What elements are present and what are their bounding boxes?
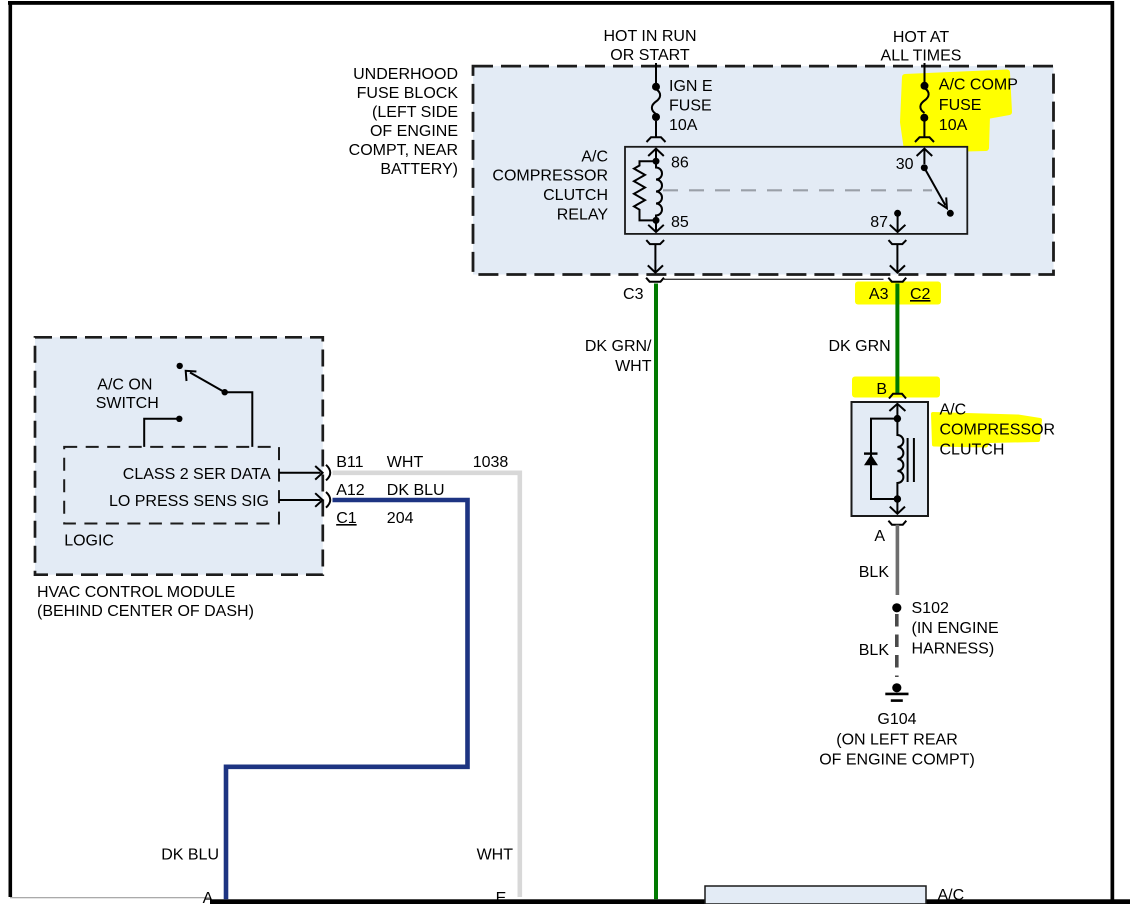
relay switch end dot [947, 210, 954, 217]
svg-text:BLK: BLK [859, 564, 890, 581]
svg-text:10A: 10A [939, 117, 968, 134]
svg-text:HOT AT: HOT AT [893, 29, 950, 46]
frame bottom grey line [10, 897, 210, 898]
relay pin 30 dot [921, 164, 928, 171]
logic box [64, 447, 279, 524]
fuse A/C COMP top dot [921, 82, 929, 90]
wire fuse to connector [655, 121, 657, 137]
wire DK BLU [226, 500, 468, 899]
svg-text:A/C COMP: A/C COMP [939, 77, 1018, 94]
A/C on switch mid dot [222, 389, 228, 395]
clutch top dot [894, 415, 901, 422]
svg-text:HOT IN RUN: HOT IN RUN [603, 28, 696, 45]
connector cup below box A3-C2 [888, 278, 906, 282]
connector tent above relay (IGN E) [647, 137, 666, 142]
frame left bar [9, 1, 13, 897]
svg-text:E: E [496, 890, 507, 904]
wire BLK dashed [895, 614, 899, 677]
wire hot in run feed [655, 63, 657, 86]
svg-text:HARNESS): HARNESS) [912, 640, 995, 657]
svg-text:204: 204 [387, 510, 414, 527]
wire switch to logic left [144, 419, 179, 447]
diode triangle [864, 455, 878, 466]
fuse A/C COMP element [920, 88, 928, 113]
svg-text:S102: S102 [912, 600, 949, 617]
lo press sens sig out arrow [279, 499, 321, 501]
fuse IGN E bottom dot [652, 113, 660, 121]
wire hot at all times feed [924, 63, 926, 85]
clutch exit arrow [896, 499, 898, 514]
svg-text:FUSE: FUSE [669, 98, 712, 115]
clutch plates [907, 438, 909, 482]
svg-text:WHT: WHT [387, 454, 424, 471]
wire WHT [333, 473, 520, 897]
connector cup below relay C3 [646, 240, 664, 244]
svg-text:A/C: A/C [581, 149, 608, 166]
connector cup below relay 87 [889, 240, 907, 244]
connector cup below clutch A [888, 521, 906, 525]
svg-text:C1: C1 [336, 510, 357, 527]
wire switch to logic right [225, 392, 253, 447]
svg-text:85: 85 [671, 214, 689, 231]
svg-text:IGN E: IGN E [669, 78, 713, 95]
highlight COMPRESSOR [933, 414, 1040, 446]
ground G104 [892, 683, 901, 692]
svg-text:OF ENGINE COMPT): OF ENGINE COMPT) [819, 752, 975, 769]
highlight A3 C2 [855, 282, 941, 305]
svg-text:OF ENGINE: OF ENGINE [370, 123, 458, 140]
wire BLK solid [896, 525, 900, 595]
svg-text:10A: 10A [669, 117, 698, 134]
svg-text:COMPRESSOR: COMPRESSOR [940, 422, 1056, 439]
arrow C3 exit [648, 265, 663, 272]
highlight B [852, 377, 940, 398]
relay switch arm [924, 168, 945, 206]
wire C3 exit [654, 244, 656, 272]
svg-text:A: A [874, 528, 885, 545]
wire fuse to connector (right) [923, 121, 925, 137]
svg-text:A12: A12 [336, 482, 365, 499]
class 2 ser data out arrow [279, 472, 321, 474]
svg-text:A/C: A/C [940, 402, 967, 419]
svg-text:COMPT, NEAR: COMPT, NEAR [349, 142, 458, 159]
connector paren B11 [326, 465, 330, 481]
highlight A/C COMP FUSE [903, 73, 1009, 151]
relay pin 30 entry arrow [917, 149, 933, 156]
svg-text:(IN ENGINE: (IN ENGINE [912, 620, 999, 637]
svg-text:B: B [876, 381, 887, 398]
relay pin 85 dot [653, 217, 660, 224]
fuse A/C COMP bottom dot [920, 114, 928, 122]
frame top bar [8, 1, 1114, 5]
diode bar [864, 452, 878, 454]
svg-text:OR START: OR START [610, 47, 690, 64]
svg-text:CLUTCH: CLUTCH [543, 187, 608, 204]
relay pin 86 entry arrow [648, 149, 664, 156]
svg-text:CLUTCH: CLUTCH [940, 442, 1005, 459]
svg-text:(ON LEFT REAR: (ON LEFT REAR [836, 731, 958, 748]
svg-text:G104: G104 [877, 711, 916, 728]
relay coil [656, 161, 662, 220]
svg-text:C3: C3 [623, 286, 644, 303]
clutch entry arrow [889, 404, 905, 411]
svg-text:1038: 1038 [473, 454, 509, 471]
arrow 87 exit [890, 265, 905, 272]
underhood fuse block box [473, 66, 1054, 274]
svg-text:A3: A3 [869, 286, 889, 303]
svg-text:LOGIC: LOGIC [64, 533, 114, 550]
A/C on switch upper dot [177, 363, 183, 369]
svg-text:WHT: WHT [477, 847, 514, 864]
HVAC control module box [35, 337, 323, 574]
svg-text:FUSE BLOCK: FUSE BLOCK [357, 85, 459, 102]
svg-text:BLK: BLK [859, 642, 890, 659]
svg-text:DK GRN: DK GRN [828, 338, 890, 355]
wire DK GRN/WHT (left green) [654, 284, 658, 900]
svg-text:BATTERY): BATTERY) [380, 161, 458, 178]
connector tent clutch B [889, 394, 906, 399]
wire 87 exit [896, 244, 898, 272]
relay box [625, 147, 967, 234]
svg-text:(LEFT SIDE: (LEFT SIDE [372, 104, 458, 121]
A/C low pressure switch box (bottom) [705, 886, 926, 904]
svg-text:COMPRESSOR: COMPRESSOR [492, 168, 608, 185]
fuse IGN E element [652, 89, 660, 114]
frame right bar [1111, 1, 1115, 900]
relay pin 85 exit arrow [655, 220, 657, 231]
svg-text:A/C: A/C [938, 887, 965, 904]
splice S102 dot [892, 603, 901, 612]
clutch diode branch [871, 419, 897, 499]
svg-text:C2: C2 [910, 286, 931, 303]
relay pin 87 exit arrow [897, 213, 899, 231]
svg-text:87: 87 [870, 214, 888, 231]
svg-text:DK GRN/: DK GRN/ [585, 338, 652, 355]
svg-text:DK BLU: DK BLU [161, 847, 219, 864]
svg-text:CLASS 2 SER DATA: CLASS 2 SER DATA [123, 466, 271, 483]
relay resistor [634, 161, 656, 220]
svg-text:LO PRESS SENS SIG: LO PRESS SENS SIG [109, 493, 269, 510]
fuse IGN E top dot [652, 83, 660, 91]
relay internal dashed divider [663, 189, 932, 191]
A/C on switch lower dot [176, 416, 182, 422]
connector tent above relay (30) [915, 137, 934, 142]
svg-text:(BEHIND CENTER OF DASH): (BEHIND CENTER OF DASH) [37, 603, 254, 620]
svg-text:30: 30 [896, 156, 914, 173]
svg-text:A: A [203, 890, 214, 904]
frame bottom bar [210, 899, 1130, 904]
clutch coil [897, 419, 903, 499]
svg-text:A/C ON: A/C ON [97, 377, 152, 394]
A/C on switch arm with arrow [190, 373, 225, 393]
A/C compressor clutch box [852, 402, 929, 516]
svg-text:SWITCH: SWITCH [96, 395, 159, 412]
connector horizontal line [664, 278, 884, 280]
svg-text:WHT: WHT [615, 358, 652, 375]
svg-text:B11: B11 [336, 454, 363, 471]
connector paren A12 [326, 492, 330, 508]
svg-text:FUSE: FUSE [939, 97, 982, 114]
clutch bottom dot [894, 495, 901, 502]
relay pin 86 dot [653, 158, 660, 165]
relay pin 87 dot [894, 210, 901, 217]
svg-text:86: 86 [671, 155, 689, 172]
connector cup below box C3 [646, 278, 664, 282]
svg-text:ALL TIMES: ALL TIMES [881, 48, 962, 65]
svg-text:RELAY: RELAY [557, 207, 609, 224]
wire DK GRN (right green) [895, 284, 899, 394]
svg-text:DK BLU: DK BLU [387, 482, 445, 499]
svg-text:UNDERHOOD: UNDERHOOD [353, 66, 458, 83]
svg-text:HVAC CONTROL MODULE: HVAC CONTROL MODULE [37, 584, 235, 601]
